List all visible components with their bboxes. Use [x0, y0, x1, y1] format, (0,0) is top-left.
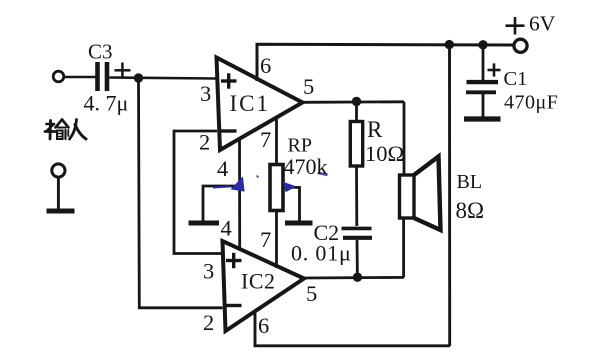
svg-text:8Ω: 8Ω — [456, 198, 485, 223]
svg-text:R: R — [367, 117, 383, 142]
svg-text:6: 6 — [260, 53, 271, 78]
svg-text:10Ω: 10Ω — [365, 141, 404, 166]
svg-text:4. 7μ: 4. 7μ — [84, 91, 129, 116]
svg-text:0. 01μ: 0. 01μ — [291, 241, 352, 266]
svg-text:3: 3 — [200, 81, 211, 106]
svg-text:C1: C1 — [504, 68, 528, 90]
svg-text:BL: BL — [457, 171, 483, 193]
svg-text:IC1: IC1 — [230, 91, 271, 116]
svg-text:6: 6 — [258, 313, 269, 338]
svg-text:IC2: IC2 — [241, 269, 276, 294]
svg-text:2: 2 — [199, 130, 210, 155]
svg-text:6V: 6V — [529, 11, 556, 35]
svg-text:4: 4 — [217, 156, 228, 181]
svg-text:470k: 470k — [284, 154, 328, 179]
svg-text:5: 5 — [303, 74, 314, 99]
svg-text:5: 5 — [306, 281, 317, 306]
svg-text:470μF: 470μF — [504, 92, 558, 114]
svg-text:4: 4 — [221, 216, 232, 241]
svg-text:2: 2 — [203, 310, 214, 335]
svg-text:7: 7 — [260, 227, 271, 252]
svg-text:3: 3 — [203, 259, 214, 284]
svg-text:7: 7 — [260, 127, 271, 152]
svg-text:C3: C3 — [88, 40, 113, 64]
